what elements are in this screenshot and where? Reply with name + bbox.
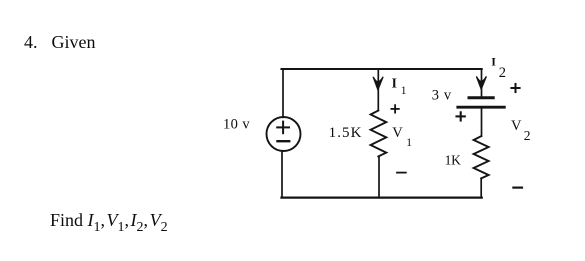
wire middle branch bottom: [378, 156, 380, 197]
battery plus sign: [457, 112, 465, 120]
svg-text:1.5K: 1.5K: [329, 125, 363, 141]
voltage source minus sign: [278, 140, 290, 142]
wire top rail: [282, 68, 482, 70]
wire left rail lower: [281, 151, 283, 198]
svg-text:V: V: [392, 125, 403, 141]
voltage source VS 10v circle: [267, 117, 301, 151]
problem number heading "4. Given": [24, 32, 38, 53]
svg-text:2: 2: [499, 65, 506, 81]
wire left rail upper: [282, 69, 284, 117]
svg-text:3 v: 3 v: [432, 88, 452, 104]
resistor R1 1.5K zigzag: [371, 111, 387, 157]
svg-text:2: 2: [524, 128, 531, 143]
minus sign of V1: [397, 172, 406, 174]
voltage source plus sign: [277, 122, 289, 134]
svg-text:10 v: 10 v: [223, 117, 250, 133]
svg-text:1: 1: [401, 85, 407, 97]
plus sign of V2: [511, 84, 519, 92]
svg-text:I: I: [491, 55, 496, 69]
current arrow I1: [373, 77, 383, 90]
current arrow I2: [476, 76, 486, 89]
svg-text:1K: 1K: [445, 152, 462, 167]
svg-text:1: 1: [406, 137, 412, 149]
battery B1 3v top plate: [469, 96, 493, 99]
wire right branch top: [481, 69, 483, 96]
find line "Find I1, V1, I2, V2": [50, 210, 168, 231]
wire bottom rail: [282, 196, 482, 198]
svg-text:V: V: [511, 118, 522, 134]
wire middle branch top: [377, 69, 379, 111]
wire right branch bottom: [480, 178, 482, 197]
svg-text:I: I: [392, 76, 397, 91]
resistor R2 1K zigzag: [474, 136, 489, 178]
plus sign of V1: [391, 105, 398, 112]
minus sign of V2: [513, 187, 522, 189]
battery B1 3v bottom plate: [458, 106, 505, 109]
wire battery to resistor R2: [481, 107, 483, 136]
